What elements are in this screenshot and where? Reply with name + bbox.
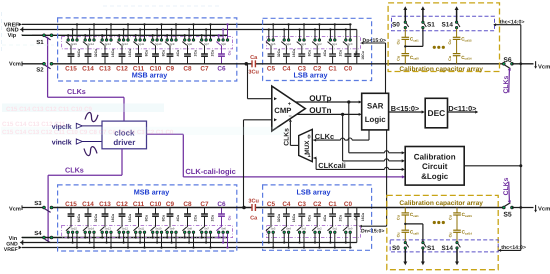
wire CLKs to S5 (purple) (508, 200, 511, 203)
svg-text:C11: C11 (133, 65, 145, 72)
svg-text:4Cu: 4Cu (176, 215, 180, 222)
svg-text:OUTp: OUTp (309, 94, 331, 103)
svg-text:C15 C14 C13 C12 C11: C15 C14 C13 C12 C11 (2, 121, 66, 128)
capacitor C9 (top MSB) (169, 45, 171, 54)
capacitor C2 (bottom LSB) (316, 208, 318, 215)
svg-text:C9: C9 (166, 65, 175, 72)
svg-text:8Cu: 8Cu (308, 215, 312, 222)
switch Sn3 (bottom LSB) (297, 227, 301, 231)
svg-text:1: 1 (308, 153, 311, 159)
svg-text:Cu: Cu (448, 39, 452, 45)
svg-text:Cu: Cu (397, 39, 401, 45)
capacitor C10 (top MSB) (155, 45, 157, 54)
svg-text:C4: C4 (282, 65, 291, 72)
LSB array box (top) (263, 18, 372, 80)
block DEC (425, 98, 447, 128)
svg-text:vinclk: vinclk (52, 138, 72, 146)
wire GND rail (top) (23, 29, 357, 31)
wire CLKc (313, 139, 316, 142)
svg-text:Cu: Cu (448, 55, 452, 61)
svg-text:Sn0: Sn0 (348, 227, 353, 230)
wire VREF rail (top) (22, 23, 352, 25)
wire VREF rail (bottom) (22, 247, 352, 249)
capacitor C0 (bottom LSB) (347, 208, 349, 215)
capacitor C14 (bottom MSB) (87, 208, 89, 215)
capacitor C7 (bottom MSB) (204, 208, 206, 215)
switch Sn12 (bottom MSB) (117, 227, 121, 231)
switch Sn4 (bottom LSB) (281, 227, 285, 231)
LSB array box (bottom) (263, 185, 372, 250)
capacitor C14 (top MSB) (87, 45, 89, 54)
svg-text:16Cu: 16Cu (111, 49, 115, 58)
svg-text:4Cu: 4Cu (323, 50, 327, 57)
ellipsis dots (bottom cal) (433, 221, 436, 224)
wire thc vertical (520, 25, 522, 251)
capacitor dummy 16Cu (top) (356, 30, 358, 55)
svg-text:D<11:0>: D<11:0> (448, 104, 476, 113)
svg-text:driver: driver (113, 138, 135, 147)
capacitor C15 (top MSB) (70, 45, 72, 54)
switch Sp5 (top LSB) (268, 30, 270, 39)
svg-text:Sn9: Sn9 (170, 227, 175, 230)
svg-text:Vcm: Vcm (538, 206, 550, 212)
switch S2 (43, 62, 46, 65)
svg-text:C14: C14 (82, 201, 94, 208)
capacitor C8 (top MSB) (187, 45, 189, 54)
switch Sn15 (bottom MSB) (66, 227, 70, 231)
svg-text:S5: S5 (503, 211, 512, 218)
svg-text:C0: C0 (344, 65, 353, 72)
wire Vcm feed (bottom-left) (22, 207, 43, 209)
svg-text:32Cu: 32Cu (94, 214, 98, 223)
svg-text:B<15:0>: B<15:0> (391, 104, 419, 113)
capacitor C1 (bottom LSB) (332, 208, 334, 215)
svg-text:DEC: DEC (428, 108, 446, 118)
svg-text:C0: C0 (344, 201, 353, 208)
svg-text:S3: S3 (34, 200, 42, 207)
switch Sn9 (bottom MSB) (165, 227, 169, 231)
svg-text:3Cu: 3Cu (248, 70, 259, 76)
switch Sn5 (bottom LSB) (266, 227, 270, 231)
svg-text:2Cu: 2Cu (338, 50, 342, 57)
svg-text:Dp<15:0>: Dp<15:0> (363, 38, 386, 44)
svg-text:Ca: Ca (250, 55, 258, 61)
switch S6 (502, 62, 505, 65)
svg-text:Sn3: Sn3 (301, 227, 306, 230)
calibration switch box (bottom) (390, 240, 498, 252)
svg-text:C15: C15 (65, 201, 77, 208)
wire GND rail (bottom) (23, 242, 357, 244)
svg-text:C2: C2 (313, 201, 322, 208)
svg-text:C3: C3 (298, 65, 307, 72)
capacitor C2 (top LSB) (316, 45, 318, 54)
svg-text:CLK-cali-logic: CLK-cali-logic (185, 167, 235, 176)
wire Vin rail (22, 237, 227, 239)
watermark artifact (decorative) (1, 6, 285, 136)
switch Sp11 (top MSB) (135, 35, 137, 39)
capacitor C13 (top MSB) (104, 45, 106, 54)
calibration column 14 (bottom) (456, 208, 458, 213)
calibration column 0 (bottom) (404, 208, 406, 213)
svg-text:4Cu: 4Cu (176, 50, 180, 57)
calibration column 0 (top) (404, 10, 406, 21)
terminal Vcm (top right) (535, 61, 537, 66)
svg-text:4Cu: 4Cu (323, 215, 327, 222)
capacitor C15 (bottom MSB) (70, 208, 72, 215)
switch Sn1 (bottom LSB) (328, 227, 332, 231)
svg-text:CLKs: CLKs (65, 166, 84, 175)
svg-text:C7: C7 (200, 201, 209, 208)
switch Sp12 (top MSB) (118, 35, 120, 39)
svg-text:Sn14: Sn14 (88, 227, 95, 230)
svg-text:Sp14: Sp14 (88, 43, 95, 46)
svg-text:CLKs: CLKs (503, 177, 510, 195)
capacitor C12 (top MSB) (121, 45, 123, 54)
svg-text:SAR: SAR (367, 102, 384, 111)
svg-text:64Cu: 64Cu (77, 214, 81, 223)
svg-text:C14: C14 (82, 65, 94, 72)
switch Sp15 (top MSB) (67, 35, 69, 39)
svg-text:thc<14:0>: thc<14:0> (500, 19, 525, 25)
svg-text:Sp11: Sp11 (138, 43, 145, 46)
switch Sn11 (bottom MSB) (133, 227, 137, 231)
Calibration capacitor array box (top) (388, 3, 499, 72)
svg-text:S0: S0 (392, 245, 400, 252)
capacitor C3 (bottom LSB) (301, 208, 303, 215)
svg-text:Cu: Cu (448, 214, 452, 220)
svg-text:2Cu: 2Cu (338, 215, 342, 222)
svg-text:8Cu: 8Cu (308, 50, 312, 57)
svg-text:Sn10: Sn10 (155, 227, 162, 230)
capacitor C8 (bottom MSB) (187, 208, 189, 215)
svg-text:2Cu: 2Cu (210, 215, 214, 222)
svg-text:16Cu: 16Cu (292, 49, 296, 58)
svg-text:VREF: VREF (4, 247, 18, 253)
svg-text:Vip: Vip (8, 32, 17, 39)
sine symbol (vinclk) (84, 147, 97, 156)
svg-text:Cu: Cu (397, 232, 401, 238)
svg-text:S14: S14 (442, 21, 454, 28)
svg-text:Ccal14: Ccal14 (462, 230, 473, 236)
capacitor C11 (bottom MSB) (138, 208, 140, 215)
svg-text:Cu: Cu (227, 51, 231, 56)
capacitor C5 (top LSB) (270, 45, 272, 54)
svg-text:Logic: Logic (365, 115, 386, 124)
switch S1 (32, 34, 43, 36)
switch Sp10 (top MSB) (152, 35, 154, 39)
svg-text:S14: S14 (442, 245, 454, 252)
svg-text:C5: C5 (267, 201, 276, 208)
capacitor C0 (top LSB) (347, 45, 349, 54)
capacitor C9 (bottom MSB) (169, 208, 171, 215)
svg-text:C4: C4 (282, 201, 291, 208)
block SAR Logic (362, 93, 389, 130)
wire CLK-cali-logic (purple) (147, 133, 184, 135)
sine symbol (vipclk) (85, 112, 98, 121)
svg-text:32Cu: 32Cu (94, 49, 98, 58)
svg-text:2Cu: 2Cu (193, 50, 197, 57)
svg-text:CLKcali: CLKcali (318, 161, 346, 170)
capacitor C3 (top LSB) (301, 45, 303, 54)
switch S4 (43, 236, 46, 239)
LSB switch sub-box (top) (267, 37, 361, 49)
svg-text:C13: C13 (99, 201, 111, 208)
svg-text:C3: C3 (298, 201, 307, 208)
svg-text:16Cu: 16Cu (292, 214, 296, 223)
svg-text:C12: C12 (116, 65, 128, 72)
switch Sp2 (top LSB) (314, 30, 316, 39)
svg-text:thc<14:0>: thc<14:0> (501, 245, 526, 251)
svg-text:C8: C8 (183, 201, 192, 208)
switch S3 (43, 206, 46, 209)
svg-text:Ccal1: Ccal1 (410, 37, 419, 43)
wire Dn bus (386, 130, 388, 226)
wire comparator -input (243, 120, 245, 208)
switch Sn10 (bottom MSB) (150, 227, 154, 231)
svg-text:2Cu: 2Cu (193, 215, 197, 222)
capacitor C4 (bottom LSB) (285, 208, 287, 215)
wire CLKcali (314, 157, 317, 160)
wire CLKs control (top, purple) (47, 37, 49, 98)
svg-text:Cu: Cu (397, 55, 401, 61)
svg-text:LSB array: LSB array (297, 188, 331, 197)
switch Sn14 (bottom MSB) (83, 227, 87, 231)
switch S1 (bottom calibration) (405, 223, 423, 225)
svg-text:Ccal14: Ccal14 (461, 55, 472, 61)
wire to Vcm (top right) (512, 63, 534, 65)
switch Sp8 (top MSB) (184, 35, 186, 39)
svg-text:16Cu: 16Cu (128, 49, 132, 58)
svg-text:S1: S1 (427, 21, 435, 28)
svg-text:Sp12: Sp12 (122, 43, 129, 46)
wire OUTp tap (348, 102, 350, 153)
svg-text:Sn7: Sn7 (204, 227, 209, 230)
svg-text:MSB array: MSB array (134, 188, 170, 197)
capacitor C7 (top MSB) (204, 45, 206, 54)
Calibration capacitor array box (bottom) (387, 195, 498, 269)
svg-text:Sp10: Sp10 (155, 43, 162, 46)
capacitor C4 (top LSB) (285, 45, 287, 54)
switch Sn0 (bottom LSB) (343, 227, 347, 231)
svg-text:C1: C1 (329, 65, 338, 72)
svg-text:3Cu: 3Cu (248, 199, 259, 205)
svg-text:16Cu: 16Cu (128, 214, 132, 223)
svg-text:C10: C10 (150, 201, 162, 208)
svg-text:Cu: Cu (227, 216, 231, 221)
svg-text:Sp13: Sp13 (105, 43, 112, 46)
svg-text:32Cu: 32Cu (277, 49, 281, 58)
switch S5 (502, 206, 505, 209)
svg-text:C12: C12 (116, 201, 128, 208)
switch Sp4 (top LSB) (283, 30, 285, 39)
svg-text:S6: S6 (503, 57, 512, 64)
switch Sp1 (top LSB) (329, 30, 331, 39)
svg-text:C7: C7 (200, 65, 209, 72)
svg-text:S0: S0 (392, 21, 400, 28)
capacitor C10 (bottom MSB) (155, 208, 157, 215)
svg-text:Sn13: Sn13 (105, 227, 112, 230)
svg-text:16Cu: 16Cu (361, 51, 365, 60)
svg-text:C8: C8 (183, 65, 192, 72)
svg-text:Circuit: Circuit (422, 162, 448, 171)
svg-text:Sn5: Sn5 (271, 227, 276, 230)
svg-text:C11: C11 (133, 201, 145, 208)
switch Sp6 (top MSB) (218, 35, 220, 39)
calibration switch box (top) (392, 16, 495, 30)
wire Dp bus (385, 43, 387, 93)
svg-text:Sn8: Sn8 (187, 227, 192, 230)
MSB array box (bottom) (58, 185, 237, 251)
svg-text:CLKs: CLKs (67, 87, 86, 96)
svg-text:C5: C5 (267, 65, 276, 72)
switch Sn2 (bottom LSB) (312, 227, 316, 231)
svg-text:Ccal0: Ccal0 (410, 55, 419, 61)
capacitor Ca (bottom) (251, 204, 253, 211)
capacitor C11 (top MSB) (138, 45, 140, 54)
calibration column 14 (top) (456, 10, 458, 21)
svg-text:Ccal0: Ccal0 (410, 230, 419, 236)
switch Sp3 (top LSB) (299, 30, 301, 39)
svg-text:2Cu: 2Cu (210, 50, 214, 57)
wire comparator +input (247, 64, 249, 99)
wire DAC common rail (top) (53, 63, 252, 65)
svg-text:Sn1: Sn1 (332, 227, 337, 230)
MSB switch sub-box (bottom) (62, 225, 233, 237)
svg-text:–: – (289, 113, 292, 119)
svg-text:8Cu: 8Cu (161, 50, 165, 57)
switch Sp9 (top MSB) (166, 35, 168, 39)
svg-text:C10: C10 (150, 65, 162, 72)
node comparator-p junction (245, 62, 249, 66)
capacitor C12 (bottom MSB) (121, 208, 123, 215)
wire CLKs to S6 (purple) (508, 67, 511, 70)
capacitor C5 (bottom LSB) (270, 208, 272, 215)
switch Sn8 (bottom MSB) (182, 227, 186, 231)
svg-text:C1: C1 (329, 201, 338, 208)
svg-text:C15 C14 C13 C12 C11 C10 C9 C8: C15 C14 C13 C12 C11 C10 C9 C8 C7 C6 C5 C… (2, 129, 174, 136)
terminal Vcm (bottom right) (535, 205, 537, 210)
switch Sp7 (top MSB) (201, 35, 203, 39)
svg-text:Calibration: Calibration (414, 152, 456, 161)
capacitor C13 (bottom MSB) (104, 208, 106, 215)
capacitor C1 (top LSB) (332, 45, 334, 54)
svg-text:Sn2: Sn2 (317, 227, 322, 230)
capacitor dummy 16Cu (bottom) (356, 208, 358, 215)
svg-text:Calibration capacitor array: Calibration capacitor array (399, 66, 483, 73)
svg-text:Ca: Ca (250, 216, 258, 222)
LSB switch sub-box (bottom) (267, 225, 361, 237)
svg-text:Sn15: Sn15 (71, 227, 78, 230)
switch Sp0 (top LSB) (345, 30, 347, 39)
wire OUTn (298, 113, 361, 115)
svg-text:32Cu: 32Cu (277, 214, 281, 223)
MSB array box (top) (58, 18, 237, 81)
svg-text:CLKs: CLKs (503, 76, 510, 94)
svg-text:8Cu: 8Cu (144, 50, 148, 57)
svg-text:Vcm: Vcm (9, 62, 21, 68)
switch Sp14 (top MSB) (84, 35, 86, 39)
wire OUTp (296, 101, 361, 103)
svg-text:S1: S1 (427, 245, 435, 252)
switch S1 (top calibration) (405, 45, 423, 47)
svg-text:Sn4: Sn4 (286, 227, 291, 230)
wire B<15:0> (389, 111, 424, 113)
multiplexer MUX (299, 129, 313, 161)
svg-text:C15 C14 C13 C12 C11 C10 C9: C15 C14 C13 C12 C11 C10 C9 (6, 106, 93, 113)
svg-text:S2: S2 (36, 67, 44, 74)
clock driver box (102, 121, 147, 149)
wire thc bus (top) (494, 24, 521, 26)
svg-text:Vcm: Vcm (538, 64, 550, 70)
svg-text:Calibration capacitor array: Calibration capacitor array (399, 200, 483, 207)
switch Sn13 (bottom MSB) (100, 227, 104, 231)
svg-text:Sn12: Sn12 (122, 227, 129, 230)
switch Sn7 (bottom MSB) (199, 227, 203, 231)
svg-text:Ccal15: Ccal15 (462, 212, 473, 218)
capacitor C6 (top MSB) (221, 45, 223, 54)
svg-text:C9: C9 (166, 201, 175, 208)
svg-text:C13: C13 (99, 65, 111, 72)
node comparator-n junction (242, 206, 246, 210)
wire OUTn tap (342, 114, 344, 160)
block Calibration Circuit &Logic (405, 147, 464, 186)
svg-text:Sn6: Sn6 (221, 227, 226, 230)
svg-text:Sp15: Sp15 (71, 43, 78, 46)
wire comparator clock (289, 122, 291, 146)
capacitor C6 (bottom MSB) (221, 208, 223, 215)
wire Vcm feed (top-left) (22, 63, 43, 65)
svg-text:&Logic: &Logic (421, 172, 449, 181)
svg-text:16Cu: 16Cu (111, 214, 115, 223)
svg-text:Ccal15: Ccal15 (461, 37, 472, 43)
wire calibration output (464, 165, 521, 167)
wire DAC common rail (bottom) (53, 207, 252, 209)
svg-text:OUTn: OUTn (309, 106, 331, 115)
svg-text:64Cu: 64Cu (77, 49, 81, 58)
svg-text:Sn11: Sn11 (138, 227, 145, 230)
svg-text:C15: C15 (65, 65, 77, 72)
ellipsis dots (top cal) (433, 46, 436, 49)
svg-text:Vcm: Vcm (9, 207, 21, 213)
wire to Vcm (bottom right) (512, 207, 534, 209)
wire Vip rail (22, 34, 227, 36)
svg-text:Cu: Cu (448, 232, 452, 238)
capacitor Ca (top) (251, 60, 253, 67)
svg-text:0: 0 (308, 134, 311, 140)
svg-text:8Cu: 8Cu (161, 215, 165, 222)
svg-text:8Cu: 8Cu (144, 215, 148, 222)
svg-text:16Cu: 16Cu (361, 213, 365, 222)
op-amp U1 comparator CMP (272, 86, 306, 131)
switch Sn6 (bottom MSB) (216, 227, 220, 231)
wire D<11:0> (448, 111, 478, 113)
wire thc bus (bottom) (499, 249, 521, 251)
switch Sp13 (top MSB) (101, 35, 103, 39)
svg-text:C2: C2 (313, 65, 322, 72)
svg-text:Ccal1: Ccal1 (410, 212, 419, 218)
svg-text:Cu: Cu (397, 214, 401, 220)
wire CLKs control (bottom, purple) (121, 149, 123, 175)
svg-text:C6: C6 (217, 201, 226, 208)
svg-text:C6: C6 (217, 65, 226, 72)
MSB switch sub-box (top) (62, 37, 233, 49)
svg-text:S4: S4 (34, 230, 42, 237)
svg-text:Dn<15:0>: Dn<15:0> (361, 229, 384, 235)
svg-text:CLKc: CLKc (315, 132, 334, 141)
